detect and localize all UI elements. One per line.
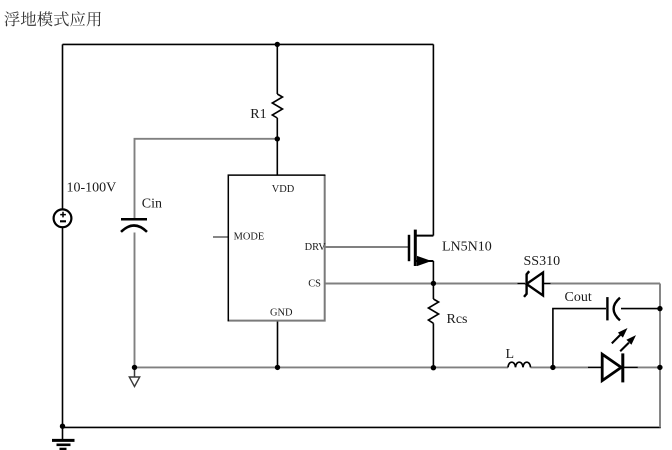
wire LED left stub xyxy=(588,366,602,368)
wire diode right stub xyxy=(543,283,551,285)
wire Rcs top lead xyxy=(432,283,434,299)
IC U1 body xyxy=(228,175,326,321)
wire R1 bottom lead to VDD xyxy=(276,118,278,175)
wire left rail xyxy=(62,44,64,427)
node junction Cout branch xyxy=(550,365,555,370)
transistor Q1 LN5N10 xyxy=(409,230,433,267)
node junction GND rail xyxy=(275,365,280,370)
svg-text:MODE: MODE xyxy=(234,232,265,243)
node junction float left xyxy=(132,365,137,370)
wire floating ground rail mid (gray) xyxy=(531,366,589,368)
svg-text:DRV: DRV xyxy=(305,242,327,253)
wire source lead xyxy=(432,261,434,283)
node junction Rcs rail xyxy=(431,365,436,370)
wire drain vertical xyxy=(432,44,434,235)
ground earth xyxy=(52,427,75,449)
wire Cin bottom (gray) xyxy=(134,233,136,368)
node junction source CS xyxy=(431,281,436,286)
svg-text:10-100V: 10-100V xyxy=(67,181,117,196)
resistor Rcs xyxy=(428,299,438,323)
diode D1 SS310 (schottky) xyxy=(524,271,543,297)
node junction bottom left xyxy=(60,424,65,429)
wire right rail (gray) xyxy=(659,284,661,428)
svg-text:L: L xyxy=(506,347,515,362)
wire DRV to gate (gray) xyxy=(325,246,408,248)
wire Rcs bottom lead xyxy=(432,323,434,368)
node junction LED right xyxy=(657,365,662,370)
resistor R1 xyxy=(272,94,282,118)
wire top rail xyxy=(63,43,434,45)
wire floating ground rail right (gray) xyxy=(638,366,661,368)
svg-text:Rcs: Rcs xyxy=(447,312,468,327)
wire R1 top lead xyxy=(276,44,278,94)
wire floating ground rail left (gray) xyxy=(135,366,509,368)
svg-text:Cin: Cin xyxy=(142,197,162,212)
title 浮地模式应用 xyxy=(4,11,100,26)
node junction R1 bottom xyxy=(275,136,280,141)
inductor L xyxy=(508,362,531,367)
wire bottom rail xyxy=(63,426,661,428)
node junction Cout right xyxy=(657,306,662,311)
svg-text:LN5N10: LN5N10 xyxy=(442,239,492,254)
wire CS line (gray) xyxy=(325,283,518,285)
wire diode to right rail (gray) xyxy=(551,283,661,285)
capacitor Cout xyxy=(607,297,620,320)
svg-text:GND: GND xyxy=(270,308,293,319)
wire Cout branch xyxy=(553,309,660,368)
wire GND stub xyxy=(277,321,279,368)
wire diode left stub xyxy=(518,283,526,285)
svg-text:Cout: Cout xyxy=(565,290,592,305)
svg-text:R1: R1 xyxy=(250,107,266,122)
svg-text:SS310: SS310 xyxy=(524,254,561,269)
wire Cin top (gray) xyxy=(135,139,278,218)
wire MODE stub (gray) xyxy=(213,236,228,238)
capacitor Cin xyxy=(121,219,147,232)
svg-text:CS: CS xyxy=(308,279,321,290)
ground floating marker xyxy=(129,368,139,387)
source V1 10-100V xyxy=(54,209,72,227)
svg-text:VDD: VDD xyxy=(272,184,295,195)
wire LED right stub xyxy=(623,366,638,368)
node junction top R1 xyxy=(275,42,280,47)
LED D2 xyxy=(602,328,636,382)
